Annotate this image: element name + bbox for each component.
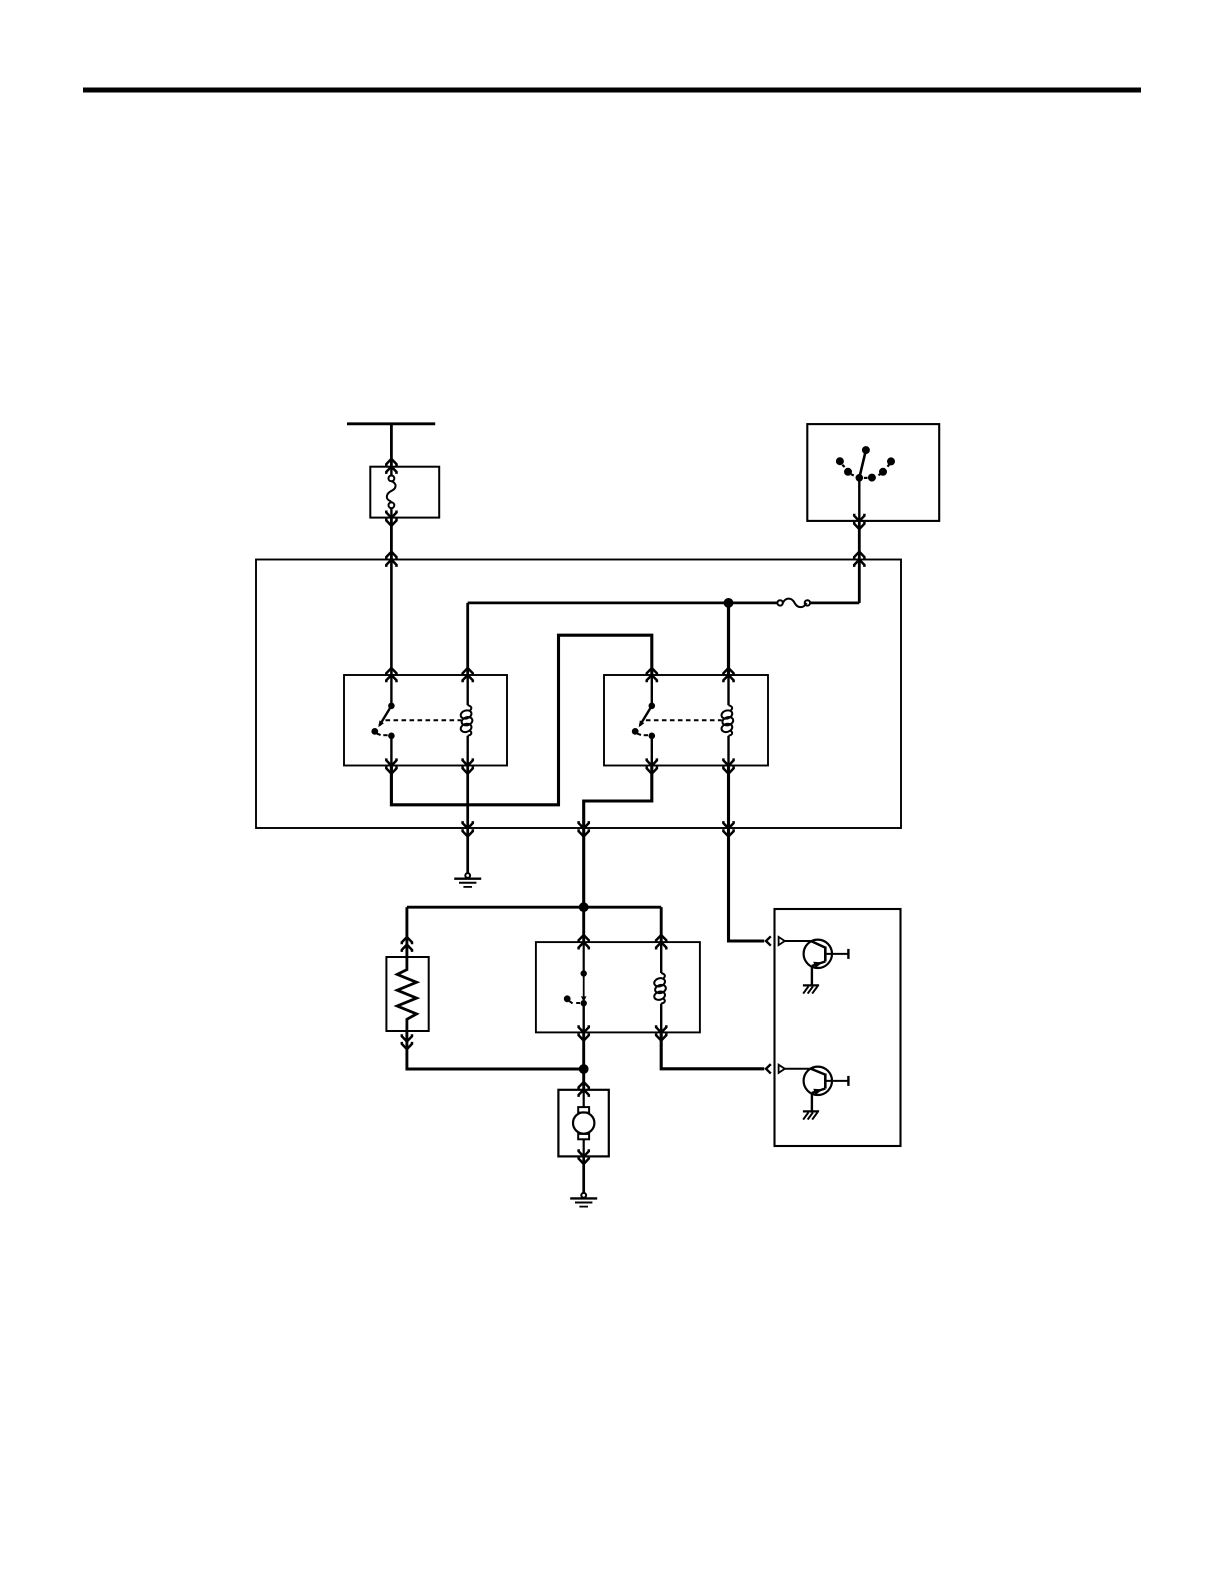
- resistor box: [386, 957, 428, 1031]
- left relay box: [344, 675, 507, 766]
- connector arrows (up) above resistor box: [402, 937, 412, 944]
- left relay switch: [371, 675, 394, 766]
- connector arrows (down) at main box bottom, coil wire: [723, 821, 733, 828]
- wire: corner down to left relay coil: [466, 603, 469, 675]
- left relay actuation dashed link: [386, 719, 462, 721]
- motor M symbol: [573, 1090, 594, 1157]
- connector arrows (down) at left relay bottom pins: [386, 758, 396, 765]
- center relay box: [536, 942, 700, 1032]
- ground symbol (earth) for motor: [570, 1193, 597, 1207]
- connector arrows (up) at left relay top, pin 1: [386, 668, 396, 675]
- wire: resistor to lower junction: [407, 1031, 584, 1069]
- wire: junction left to left relay coil corner: [468, 602, 729, 605]
- wire: ignition switch to main box top: [858, 521, 861, 560]
- motor box: [558, 1090, 608, 1157]
- wire: right relay coil to transistor 1: [729, 766, 765, 942]
- center relay switch: [564, 942, 587, 1032]
- wire: battery feed down to left relay: [390, 560, 393, 676]
- right relay box: [604, 675, 768, 766]
- connector arrows (up) at right relay top, pin 1: [647, 668, 657, 675]
- wire: center relay coil to transistor 2: [661, 1032, 764, 1068]
- wire: left relay coil to ground: [466, 766, 469, 874]
- connector arrows (up) at right relay top, coil pin: [723, 668, 733, 675]
- chassis ground Q2: [803, 1111, 819, 1119]
- ignition switch rotary symbol: [836, 447, 894, 482]
- ignition switch box: [807, 424, 939, 521]
- connector arrows (down) at main box bottom, output wire: [579, 821, 589, 828]
- connector arrows (down) at motor box bottom: [579, 1149, 589, 1156]
- wire: top bus right end down to center relay coil: [660, 907, 663, 942]
- wire: junction down to right relay coil: [727, 603, 730, 675]
- connector arrows (down) below resistor box: [402, 1034, 412, 1041]
- wire: ignition feed down to fuse row: [858, 560, 861, 603]
- wire: fusible link to main box top: [390, 518, 393, 560]
- connector arrows (up) at motor box top: [579, 1082, 589, 1089]
- chassis ground Q1: [803, 985, 819, 993]
- connector arrows (up) at fusible-link box top: [386, 459, 396, 466]
- wire: motor to ground: [582, 1156, 585, 1193]
- transistor module box: [775, 909, 901, 1146]
- connector arrowhead into transistor box, top: [766, 936, 771, 945]
- wire: center relay output to motor junction: [582, 1032, 585, 1069]
- left relay coil: [460, 675, 474, 766]
- right relay actuation dashed link: [646, 719, 722, 721]
- wire: horizontal bus at motor feed: [407, 906, 661, 909]
- fusible link box: [370, 467, 439, 518]
- input triangle 2: [779, 1065, 785, 1073]
- main control box (BCM): [256, 560, 901, 829]
- junction node motor feed: [579, 902, 589, 912]
- connector arrows (up) at center relay top, coil pin: [656, 935, 666, 942]
- resistor R symbol: [397, 957, 416, 1031]
- wire: junction down to center relay: [582, 907, 585, 942]
- wire: horizontal fuse row segment right: [810, 602, 859, 605]
- connector arrows (up) at left relay top, coil pin: [463, 668, 473, 675]
- wire: crossover link left-relay output to right-relay input: [391, 635, 651, 805]
- right relay switch: [632, 675, 655, 766]
- wire: battery bus to fusible-link box: [390, 424, 393, 467]
- fusible link FL symbol: [390, 467, 392, 476]
- wire: right relay output to bottom junction: [584, 766, 652, 908]
- connector arrows (up) at main box top, battery feed: [386, 552, 396, 559]
- connector arrowhead into transistor box, bottom: [766, 1064, 771, 1073]
- wire: fuse to junction: [729, 602, 778, 605]
- center relay coil: [653, 942, 667, 1032]
- connector arrows (down) at right relay bottom pins: [647, 758, 657, 765]
- wire: bus down to resistor: [405, 907, 408, 957]
- connector arrows (up) at center relay top, switch pin: [579, 935, 589, 942]
- wire: junction down to motor box: [582, 1069, 585, 1090]
- junction node motor: [579, 1064, 589, 1074]
- connector arrows (up) at main box top, ignition feed: [854, 552, 864, 559]
- transistor Q2: [785, 1067, 849, 1111]
- battery bus bar (power feed): [347, 422, 435, 425]
- junction node ignition feed: [724, 598, 734, 608]
- connector arrows (down) at ignition box bottom: [854, 514, 864, 521]
- connector arrows (down) at center relay bottom pins: [579, 1025, 589, 1032]
- connector arrows (down) at main box bottom, coil ground wire: [463, 821, 473, 828]
- transistor Q1: [785, 940, 849, 985]
- right relay coil: [720, 675, 734, 766]
- connector arrows (down) at fusible-link box bottom: [386, 511, 396, 518]
- header rule: [83, 88, 1141, 93]
- wire: ignition pivot down inside box: [858, 478, 860, 521]
- fuse F symbol: [777, 599, 810, 608]
- input triangle 1: [779, 937, 785, 945]
- ground symbol (earth) for left relay coil: [454, 873, 481, 887]
